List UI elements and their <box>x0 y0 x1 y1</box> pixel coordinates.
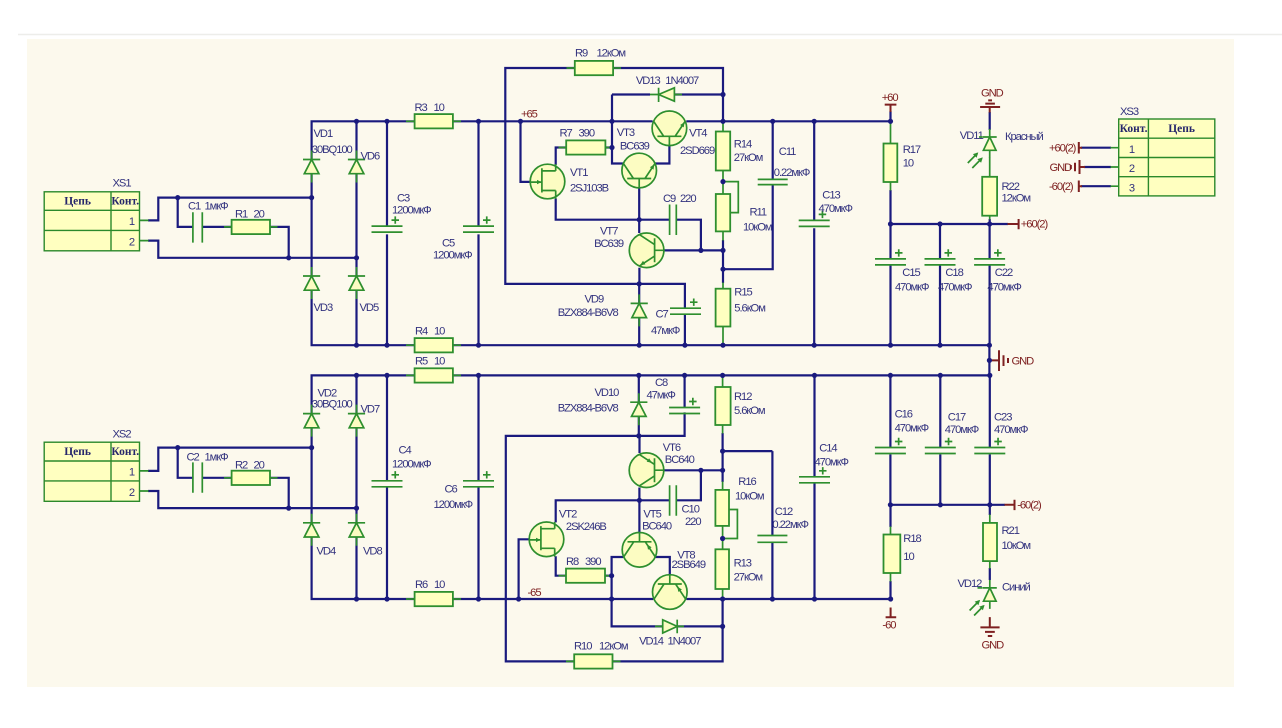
resistor R6 <box>415 592 453 606</box>
svg-text:GND: GND <box>1012 356 1035 368</box>
wire stubs (green) at resistor and connector pins <box>140 68 1119 661</box>
svg-text:1N4007: 1N4007 <box>665 75 699 87</box>
capacitor C23 (polarized) <box>974 438 1005 454</box>
wire: C3 column <box>386 121 388 345</box>
svg-text:27кОм: 27кОм <box>734 572 763 584</box>
wire: VD10 column <box>638 375 640 436</box>
svg-text:Цепь: Цепь <box>64 446 91 458</box>
svg-text:0.22мкФ: 0.22мкФ <box>772 519 808 531</box>
junctions on VT7 base line <box>698 248 725 253</box>
wire: VT2 drain to node B <box>556 500 640 522</box>
capacitor C10 220 <box>670 485 677 516</box>
transistor VT8 2SB649 (PNP, mirrored) <box>653 574 688 609</box>
wire: XS2 pin2 to bridge2 node <box>148 491 357 508</box>
svg-text:C4: C4 <box>399 445 412 457</box>
wire: C7 bottom to GND rail <box>684 314 686 345</box>
svg-text:R1: R1 <box>235 209 248 221</box>
svg-text:C12: C12 <box>775 506 793 518</box>
capacitor C1 1mkF (non-polar horizontal) <box>193 212 202 242</box>
wire: R10 right to VD14 cathode and -65 rail <box>613 599 723 661</box>
svg-text:1200мкФ: 1200мкФ <box>433 250 472 262</box>
svg-text:Цепь: Цепь <box>1168 123 1195 135</box>
svg-text:Конт.: Конт. <box>111 446 139 458</box>
svg-text:C10: C10 <box>682 504 700 516</box>
svg-text:220: 220 <box>685 516 701 528</box>
svg-text:C17: C17 <box>948 411 966 423</box>
net flag +60(2) at XS3 pin1 <box>1079 142 1082 154</box>
svg-text:+60(2): +60(2) <box>1021 219 1049 231</box>
svg-text:470мкФ: 470мкФ <box>895 281 929 293</box>
svg-text:1200мкФ: 1200мкФ <box>392 205 431 217</box>
junctions on GND rail top section <box>354 343 992 348</box>
svg-text:VD7: VD7 <box>361 404 380 416</box>
svg-text:390: 390 <box>579 128 595 140</box>
resistor R15 <box>716 289 731 327</box>
svg-text:BC640: BC640 <box>665 454 695 466</box>
svg-text:5.6кОм: 5.6кОм <box>734 303 765 315</box>
svg-text:XS2: XS2 <box>113 429 132 441</box>
svg-text:Цепь: Цепь <box>64 196 91 208</box>
resistor R2 <box>232 471 270 485</box>
svg-text:R21: R21 <box>1002 525 1020 537</box>
wire: VD11/R22 column navy parts <box>989 112 991 224</box>
svg-text:R4: R4 <box>415 326 428 338</box>
net flag -60(2) right <box>1005 500 1015 510</box>
wire: C15 column <box>889 224 891 345</box>
junction R16 wiper node <box>720 536 725 541</box>
svg-text:20: 20 <box>254 209 265 221</box>
svg-text:1: 1 <box>1129 144 1135 156</box>
wire: R16 wiper link (green) <box>723 510 738 539</box>
connector XS3 <box>1119 106 1215 196</box>
wire: -60(2) output line <box>890 504 1005 506</box>
LED VD11 (red indicator) <box>983 129 997 158</box>
svg-text:470мкФ: 470мкФ <box>938 281 972 293</box>
wire: VD14 anode drop / R8 node / VT5 collector link <box>612 557 663 626</box>
svg-text:C8: C8 <box>655 377 668 389</box>
capacitor C14 (polarized) <box>799 467 830 483</box>
svg-text:47мкФ: 47мкФ <box>647 390 676 402</box>
capacitor C16 (polarized) <box>875 438 906 454</box>
svg-text:VD4: VD4 <box>317 546 336 558</box>
svg-text:XS3: XS3 <box>1120 106 1139 118</box>
junction node A (VT1 source/VT3 base/C9/VT7 collector) <box>637 217 642 222</box>
wire: GND rail (top section) <box>453 344 990 346</box>
wire: +60 flag stem to rail and R17 bottom <box>889 111 891 224</box>
junction C12 top node <box>720 448 725 453</box>
resistor R10 <box>574 654 612 668</box>
svg-text:-65: -65 <box>528 587 542 599</box>
diode VD4 <box>303 514 320 546</box>
power flag +60 <box>885 105 897 112</box>
diode VD8 <box>348 514 365 546</box>
resistor R8 <box>566 569 605 583</box>
svg-text:VT7: VT7 <box>600 225 618 237</box>
svg-text:-60: -60 <box>882 620 896 632</box>
svg-text:30BQ100: 30BQ100 <box>312 399 353 411</box>
svg-text:R2: R2 <box>235 460 248 472</box>
connector XS2 <box>44 429 139 502</box>
wire: VT2 source to R8 <box>556 556 566 576</box>
svg-text:R5: R5 <box>415 356 428 368</box>
svg-text:VT5: VT5 <box>643 509 661 521</box>
svg-text:XS1: XS1 <box>113 178 132 190</box>
capacitor C12 0.22mkF <box>757 536 787 543</box>
diode VD13 1N4007 (horizontal, points left) <box>650 88 682 102</box>
resistor R3 <box>415 114 453 128</box>
svg-text:1мкФ: 1мкФ <box>205 452 229 464</box>
wire: GND rail (bottom section) <box>453 374 990 376</box>
resistor R4 <box>415 338 453 352</box>
ground GND middle right <box>989 350 1008 371</box>
wire: XS3 pin2 <box>1084 166 1111 168</box>
diode VD6 <box>348 151 365 183</box>
zener diode VD9 BZX884-B6V8 <box>631 294 648 326</box>
wire: R12-R16-R13 column segments <box>721 433 723 482</box>
junctions on GND rail bottom section <box>354 373 993 378</box>
wire: C5 column <box>477 121 479 345</box>
wire: C22 column <box>988 224 990 345</box>
wire: VT6 base to R16 node <box>664 469 723 471</box>
wire: XS2 pin1 to bridge2 node <box>148 448 312 471</box>
svg-text:Синий: Синий <box>1002 582 1031 594</box>
svg-text:C5: C5 <box>442 238 455 250</box>
wire: +65 top rail left + bridge1 left column + GND rail left corner <box>312 121 415 345</box>
wire: C17 column <box>939 375 941 504</box>
junction C11 bottom node <box>720 267 725 272</box>
svg-text:1200мкФ: 1200мкФ <box>392 459 431 471</box>
capacitor C3 (polarized) <box>372 216 403 232</box>
wire: +65 rail mid segment <box>453 120 653 122</box>
wire: C1/R1 snubber branch <box>178 198 289 258</box>
svg-text:R14: R14 <box>734 139 752 151</box>
svg-text:470мкФ: 470мкФ <box>819 203 853 215</box>
svg-text:2SJ103B: 2SJ103B <box>570 183 609 195</box>
wire: -65 rail left + bridge2 left column <box>312 375 415 599</box>
transistor VT7 BC639 (NPN, sideways) <box>629 233 664 268</box>
junctions XS1 branch <box>175 195 359 260</box>
resistor R22 <box>982 177 997 216</box>
wire: C23 column <box>989 375 991 504</box>
resistor R16 <box>715 490 729 526</box>
svg-text:3: 3 <box>1129 182 1135 194</box>
svg-text:1: 1 <box>129 467 135 479</box>
svg-text:27кОм: 27кОм <box>734 152 763 164</box>
svg-text:GND: GND <box>982 640 1005 652</box>
wire: XS1 pin1 to bridge1 node <box>148 198 312 221</box>
svg-text:470мкФ: 470мкФ <box>945 424 979 436</box>
ground flag GND at XS3 pin2 <box>1071 160 1085 174</box>
junctions on -65 rail <box>354 596 893 601</box>
diode VD3 <box>303 267 320 299</box>
wire: R9 right to VD13 anode and +65 rail <box>613 68 723 121</box>
svg-text:2SD669: 2SD669 <box>680 145 715 157</box>
junction at R7 right node <box>609 145 614 150</box>
resistor R5 <box>415 368 453 382</box>
junction VD14 cathode <box>720 624 725 629</box>
resistor R21 <box>983 523 997 561</box>
svg-text:VD5: VD5 <box>360 302 379 314</box>
svg-text:VD13: VD13 <box>636 75 661 87</box>
wire: C12 column and link to R12 bottom node <box>723 451 773 599</box>
svg-text:R10: R10 <box>574 641 592 653</box>
wire: C18 column <box>939 224 941 345</box>
wire: C6 column <box>477 375 479 599</box>
junction VT7 emitter / VD9 top <box>637 281 642 286</box>
svg-text:BZX884-B6V8: BZX884-B6V8 <box>558 307 619 319</box>
svg-text:VD3: VD3 <box>314 302 333 314</box>
wire: C13 column <box>813 121 815 345</box>
svg-text:2: 2 <box>1129 163 1135 175</box>
wire: VT5 emitter to VT8 base <box>656 557 670 575</box>
connector XS1 <box>44 178 139 251</box>
svg-text:2SK246B: 2SK246B <box>566 521 607 533</box>
junctions on +65/+60 top rail <box>354 119 893 124</box>
junction R8 right node <box>609 573 614 578</box>
resistor R7 <box>566 140 605 154</box>
capacitor C7 (polarized) <box>670 299 701 315</box>
wire: C8 top column <box>683 375 685 407</box>
svg-text:12кОм: 12кОм <box>1002 193 1031 205</box>
svg-text:C23: C23 <box>994 411 1012 423</box>
wire: R11 wiper link (green) <box>723 182 738 213</box>
svg-text:VD10: VD10 <box>595 387 620 399</box>
svg-text:C11: C11 <box>779 146 796 158</box>
svg-text:10: 10 <box>434 579 445 591</box>
capacitor C13 (polarized) <box>799 211 830 227</box>
svg-text:R16: R16 <box>738 476 756 488</box>
wire: C2/R2 snubber branch <box>178 448 289 509</box>
svg-text:Конт.: Конт. <box>1120 123 1148 135</box>
wire: VT2 gate to -65 rail <box>519 539 531 599</box>
junction R14/R11 wiper node <box>720 179 725 184</box>
svg-text:BZX884-B6V8: BZX884-B6V8 <box>558 403 619 415</box>
capacitor C6 (polarized) <box>463 471 494 487</box>
svg-text:C9: C9 <box>663 193 676 205</box>
capacitor C8 (polarized) <box>669 398 700 414</box>
svg-text:GND: GND <box>1050 162 1073 174</box>
svg-text:0.22мкФ: 0.22мкФ <box>774 167 810 179</box>
svg-text:C22: C22 <box>995 267 1013 279</box>
svg-text:VD8: VD8 <box>363 546 382 558</box>
resistor R18 <box>884 535 901 574</box>
wire: node B to C10, C10 to VT6 base node <box>639 470 701 500</box>
svg-text:+60: +60 <box>882 92 899 104</box>
wire: VT3 base / VT7 collector vertical <box>638 188 640 233</box>
svg-text:VT3: VT3 <box>617 127 635 139</box>
svg-text:R6: R6 <box>415 579 428 591</box>
wire: C4 column <box>386 375 388 599</box>
svg-text:12кОм: 12кОм <box>597 48 626 60</box>
wire: C11 column and link to R11 bottom node <box>723 121 773 269</box>
wire: VT6 emitter up <box>638 436 640 453</box>
svg-text:12кОм: 12кОм <box>599 641 628 653</box>
wire: C14 column <box>813 375 815 599</box>
svg-text:R15: R15 <box>734 287 752 299</box>
svg-text:2SB649: 2SB649 <box>672 559 706 571</box>
wire: VD13 cathode drop / R7 node / VT3 collector link <box>605 95 650 164</box>
svg-text:1N4007: 1N4007 <box>668 636 702 648</box>
svg-text:VT6: VT6 <box>663 442 681 454</box>
ground GND above VD11 <box>980 100 1000 112</box>
transistor VT4 2SD669 (NPN) <box>652 111 687 146</box>
svg-text:VD9: VD9 <box>585 294 604 306</box>
svg-text:R8: R8 <box>566 556 579 568</box>
wire: -65 rail mid segment <box>453 598 653 600</box>
capacitor C5 (polarized) <box>463 216 494 232</box>
wire: R18 column navy parts <box>889 505 891 599</box>
junction node B (VT2 drain/VT5 base/C10/VT6 collector) <box>637 498 642 503</box>
junctions on -60(2) line <box>888 502 993 507</box>
junctions on +60(2) line <box>888 221 992 226</box>
svg-text:BC639: BC639 <box>594 238 624 250</box>
wire: R10 loop left + upper line + C8 bottom hook <box>506 412 685 661</box>
svg-text:VD1: VD1 <box>314 128 333 140</box>
resistor R11 <box>716 194 730 231</box>
net flag +60(2) right <box>1008 219 1019 229</box>
svg-text:R11: R11 <box>750 207 767 219</box>
svg-text:1200мкФ: 1200мкФ <box>434 499 473 511</box>
transistor VT3 BC639 (NPN) <box>622 153 657 188</box>
wire: VT1 drain to R7 <box>556 148 567 166</box>
svg-text:GND: GND <box>981 88 1004 100</box>
wire: R9 feedback loop left + lower line + C7 top <box>505 68 685 308</box>
svg-text:+65: +65 <box>521 109 538 121</box>
junction GND stub <box>987 358 992 363</box>
svg-text:-60(2): -60(2) <box>1017 500 1042 512</box>
wire: VD9 column <box>638 284 640 345</box>
wire: +60(2) output line <box>891 223 1009 225</box>
junctions XS2 branch <box>175 445 359 511</box>
wire: VT7 base to R11 node <box>664 249 723 251</box>
svg-text:BC639: BC639 <box>620 140 650 152</box>
capacitor C17 (polarized) <box>925 438 956 454</box>
wire: C16 column <box>889 375 891 504</box>
wire: VT1 source to node A <box>556 199 640 220</box>
wire: R14-R11-R15 column segments <box>722 240 724 283</box>
transistor VT2 2SK246B (JFET) <box>529 522 564 557</box>
resistor R9 <box>575 61 613 75</box>
wire: R8 right link <box>605 575 612 577</box>
diode VD7 <box>348 405 365 437</box>
svg-text:+60(2): +60(2) <box>1049 143 1077 155</box>
svg-text:C18: C18 <box>945 267 963 279</box>
svg-text:VT1: VT1 <box>570 167 588 179</box>
diode VD5 <box>348 267 365 299</box>
resistor R13 <box>715 549 729 589</box>
svg-text:10: 10 <box>903 551 914 563</box>
capacitor C18 (polarized) <box>925 249 956 265</box>
diode VD14 1N4007 (horizontal, points right) <box>655 620 684 634</box>
svg-text:C14: C14 <box>819 443 837 455</box>
svg-text:R12: R12 <box>734 391 752 403</box>
capacitor C11 0.22mkF <box>758 179 788 184</box>
LED VD12 (blue indicator) <box>983 580 997 609</box>
net flag -60(2) at XS3 pin3 <box>1079 181 1082 193</box>
svg-text:20: 20 <box>254 460 265 472</box>
svg-text:30BQ100: 30BQ100 <box>312 144 353 156</box>
wire: GND rail link between sections <box>988 345 990 375</box>
svg-text:5.6кОм: 5.6кОм <box>734 405 765 417</box>
wire: R21/VD12 column navy parts <box>989 505 991 580</box>
svg-text:470мкФ: 470мкФ <box>987 281 1021 293</box>
wire: node A to C9, C9 to VT7 base node <box>639 220 701 251</box>
transistor VT1 2SJ103B (JFET) <box>530 164 565 199</box>
svg-text:-60(2): -60(2) <box>1049 181 1074 193</box>
svg-text:Конт.: Конт. <box>111 196 139 208</box>
svg-text:220: 220 <box>680 193 696 205</box>
svg-text:47мкФ: 47мкФ <box>651 325 680 337</box>
wire: VT4 base to VT3 emitter <box>655 146 669 164</box>
svg-text:390: 390 <box>585 556 601 568</box>
svg-text:470мкФ: 470мкФ <box>895 422 929 434</box>
svg-text:VD14: VD14 <box>639 636 664 648</box>
wire: bridge1 VD6/VD5 column <box>355 121 357 345</box>
transistor VT5 BC640 (PNP, mirrored) <box>622 532 657 567</box>
svg-text:VT4: VT4 <box>689 127 707 139</box>
svg-text:VD6: VD6 <box>361 151 380 163</box>
wire: XS3 pin3 <box>1081 185 1111 187</box>
svg-text:VD11: VD11 <box>960 130 984 142</box>
diode VD1 <box>303 151 320 183</box>
svg-text:2: 2 <box>129 487 135 499</box>
junction at VD13 anode <box>720 92 725 97</box>
wire: VT1 gate to +65 rail <box>521 121 532 182</box>
junctions on VT6 base line <box>698 468 725 473</box>
ground GND below VD12 <box>980 617 999 636</box>
svg-text:R13: R13 <box>734 558 752 570</box>
svg-text:Красный: Красный <box>1005 131 1043 143</box>
svg-text:10кОм: 10кОм <box>1002 540 1031 552</box>
wire: VT5 base / VT6 collector vertical <box>638 488 640 533</box>
svg-text:R22: R22 <box>1002 181 1020 193</box>
capacitor C4 (polarized) <box>372 471 403 487</box>
svg-text:R18: R18 <box>903 533 921 545</box>
resistor R17 <box>884 144 898 183</box>
svg-text:C1: C1 <box>188 201 201 213</box>
wire: XS3 pin1 <box>1081 147 1111 149</box>
wire: XS1 pin2 to bridge1 node <box>148 241 357 258</box>
svg-text:C16: C16 <box>895 409 913 421</box>
svg-text:R9: R9 <box>575 48 588 60</box>
capacitor C22 (polarized) <box>974 249 1005 265</box>
svg-text:C7: C7 <box>656 309 669 321</box>
wire: +60 rail right of VT4 <box>686 120 890 122</box>
svg-text:10: 10 <box>903 158 914 170</box>
svg-text:R3: R3 <box>415 102 428 114</box>
capacitor C15 (polarized) <box>875 249 906 265</box>
svg-text:10кОм: 10кОм <box>735 490 764 502</box>
transistor VT6 BC640 (PNP, sideways mirrored) <box>629 453 664 488</box>
svg-text:VT2: VT2 <box>559 509 577 521</box>
power flag -60 <box>886 608 897 618</box>
resistor R12 <box>715 387 730 425</box>
svg-text:C6: C6 <box>445 484 458 496</box>
resistor R14 <box>716 132 730 171</box>
svg-text:C13: C13 <box>822 190 840 202</box>
svg-text:10: 10 <box>434 326 445 338</box>
wire: -65 rail right of VT8 <box>686 598 890 600</box>
svg-text:BC640: BC640 <box>642 521 672 533</box>
junction VD10 bottom node <box>636 433 641 438</box>
svg-text:R17: R17 <box>903 144 921 156</box>
capacitor C2 1mkF <box>193 462 202 492</box>
svg-text:2: 2 <box>129 237 135 249</box>
svg-text:C15: C15 <box>902 267 920 279</box>
svg-text:10: 10 <box>434 102 445 114</box>
wire: VT7 emitter down <box>638 268 640 284</box>
svg-text:10кОм: 10кОм <box>743 222 772 234</box>
